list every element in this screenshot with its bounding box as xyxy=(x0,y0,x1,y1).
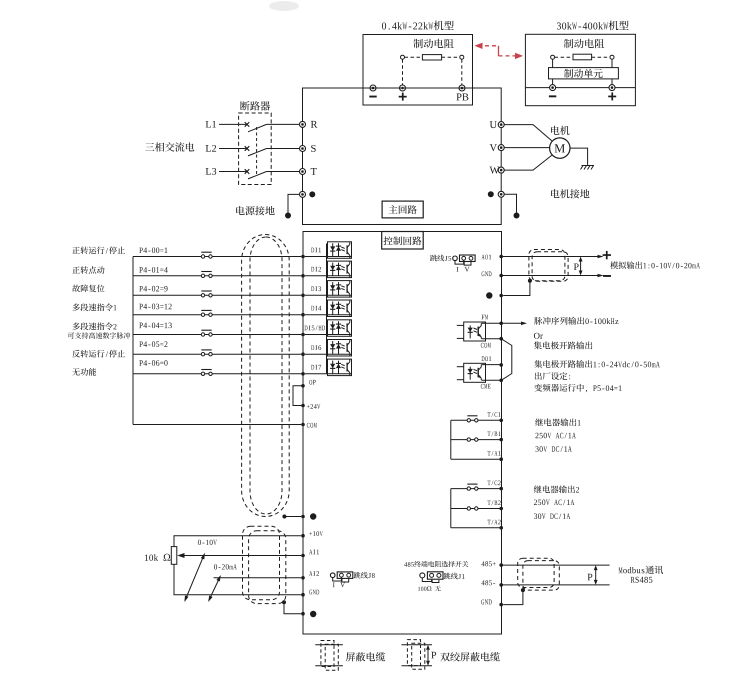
wire left node to brake unit xyxy=(552,59,554,67)
optocoupler FM xyxy=(457,322,486,341)
wire T/B1 xyxy=(451,439,501,441)
label L3 xyxy=(206,168,217,175)
wire input DI3 xyxy=(133,294,351,296)
wire AO1 output xyxy=(501,255,603,259)
terminal DI4 xyxy=(301,313,305,317)
terminal T xyxy=(300,169,306,175)
relay contact T/C1 xyxy=(467,416,478,422)
ground dot (power ground end) xyxy=(285,213,291,219)
label 反转运行/停止 xyxy=(72,350,125,358)
label - (AO1) xyxy=(603,275,611,277)
title 30kW-400kW机型 xyxy=(557,21,629,31)
wire T/C1 xyxy=(451,419,501,421)
optocoupler DI7 xyxy=(328,359,352,376)
label OP xyxy=(309,380,315,385)
label P4-03=12 xyxy=(139,304,171,310)
terminal DI3 xyxy=(301,294,305,298)
label - (right box) xyxy=(549,95,556,97)
relay contact T/B1 xyxy=(467,438,478,441)
shielded cable (analog) inner xyxy=(249,531,286,604)
ground dot (shield 1) xyxy=(310,513,316,519)
ground dot (inside main box right) xyxy=(488,191,494,197)
label V xyxy=(490,144,497,151)
wire input DI6 xyxy=(133,353,351,355)
terminal - (right box) xyxy=(550,85,556,91)
motor M xyxy=(550,138,570,158)
label T/A1 xyxy=(487,451,500,456)
ground dot (motor ground end) xyxy=(514,213,520,219)
label T/C2 xyxy=(487,481,500,486)
wire T/B2 xyxy=(451,508,501,510)
legend shielded cable symbol xyxy=(315,641,343,671)
relay link bar 2 xyxy=(450,489,452,528)
label P4-00=1 xyxy=(139,247,167,253)
label I (J8) xyxy=(333,583,335,588)
wire breaker to S terminal xyxy=(267,148,300,150)
input common bus wire xyxy=(132,257,134,425)
terminal T/B1 xyxy=(499,438,503,442)
label +24V xyxy=(307,404,320,409)
label DI1 xyxy=(311,248,321,253)
label COM xyxy=(307,423,317,428)
shielded cable (485) outer xyxy=(518,558,554,587)
label P4-01=4 xyxy=(139,267,167,273)
label T/C1 xyxy=(487,412,500,417)
breaker contact L2 xyxy=(245,146,250,151)
wire input DI1 xyxy=(133,256,351,258)
wire U to motor xyxy=(504,125,552,142)
wire DO1 out xyxy=(482,364,502,366)
label 断路器 xyxy=(240,101,270,110)
terminal CME xyxy=(499,379,503,383)
label W xyxy=(490,167,500,174)
wire pot top to +10V xyxy=(174,536,301,547)
wire input DI7 xyxy=(133,373,351,375)
title 0.4kW-22kW机型 xyxy=(382,21,454,31)
label AI2 xyxy=(309,571,319,576)
optocoupler DI5/HDI xyxy=(328,320,352,337)
label 正转运行/停止 xyxy=(72,246,125,254)
label 30V DC/1A (relay2) xyxy=(534,513,570,519)
terminal OP xyxy=(301,384,305,388)
shielded cable (485) inner xyxy=(523,561,559,591)
braking resistor (right box) xyxy=(573,54,592,60)
label 故障复位 xyxy=(72,285,104,293)
optocoupler DI2 xyxy=(328,261,352,278)
shielded cable capsule (digital inputs) outer xyxy=(242,235,290,517)
wire common bus to COM xyxy=(133,424,301,426)
wire motor ground terminal xyxy=(504,194,516,213)
optocoupler DI6 xyxy=(328,340,352,357)
terminal U xyxy=(498,122,504,128)
wire T/A1 xyxy=(451,458,501,460)
terminal DO1 xyxy=(499,363,503,367)
terminal PB (main top) xyxy=(459,85,465,91)
dashed wire node to resistor xyxy=(555,56,573,58)
label U xyxy=(490,121,497,128)
terminal GND (analog) xyxy=(301,593,305,597)
terminal DI1 xyxy=(301,255,305,259)
terminal AO1 xyxy=(499,255,503,259)
label PB xyxy=(456,94,468,101)
label T/B1 xyxy=(487,431,500,436)
label 电源接地 xyxy=(236,206,274,215)
label DI4 xyxy=(311,306,321,311)
label DI5/HDI xyxy=(305,326,328,331)
node (right brake circuit right) xyxy=(610,55,614,59)
terminal motor ground xyxy=(498,191,504,197)
label box 控制回路 xyxy=(382,232,424,250)
switch DI7 xyxy=(201,370,212,376)
label GND (AO1) xyxy=(482,271,492,276)
legend P marker xyxy=(426,645,436,666)
label T/B2 xyxy=(487,500,500,505)
label 继电器输出2 xyxy=(534,485,579,493)
label 100Ω 无 xyxy=(418,586,441,592)
label V (J5) xyxy=(465,267,470,272)
label +10V xyxy=(309,531,322,536)
brake-resistor option box (0.4kW-22kW) xyxy=(363,35,473,106)
switch DI1 xyxy=(201,252,212,258)
wire breaker to T terminal xyxy=(267,171,300,173)
terminal 485- xyxy=(499,583,503,587)
wire CME out xyxy=(482,379,502,381)
terminal AI1 xyxy=(301,554,305,558)
terminal - (main top) xyxy=(370,85,376,91)
terminal DI7 xyxy=(301,372,305,376)
switch DI4 xyxy=(201,310,212,316)
label R xyxy=(311,121,318,128)
control circuit box 控制回路 xyxy=(303,232,502,635)
junction dot shield 485 xyxy=(521,588,525,592)
wire COM out xyxy=(482,338,502,340)
signal arrow AI1 xyxy=(184,553,205,602)
terminal DI2 xyxy=(301,274,305,278)
label 出厂设定: xyxy=(535,372,570,380)
wire FM out xyxy=(482,322,502,324)
label - (minus) xyxy=(369,96,376,98)
label + xyxy=(399,93,407,101)
jumper J5 xyxy=(453,255,475,265)
wire shield AO1 to terminal xyxy=(503,281,530,296)
breaker contact L1 xyxy=(245,122,250,127)
brake-unit option box (30kW-400kW) xyxy=(525,34,635,105)
potentiometer 10k xyxy=(171,547,177,565)
wire breaker to R terminal xyxy=(267,123,300,125)
ground dot (shield 2) xyxy=(310,611,316,617)
terminal 485+ xyxy=(499,563,503,567)
terminal S xyxy=(300,146,306,152)
label L2 xyxy=(206,145,216,152)
main circuit box 主回路 xyxy=(303,88,502,225)
dashed wire node to + terminal xyxy=(402,59,404,85)
label 屏蔽电缆 xyxy=(346,652,385,661)
relay link bar 1 xyxy=(450,420,452,459)
terminal T/A2 xyxy=(499,526,503,530)
terminal FM xyxy=(499,322,503,326)
wire V to motor xyxy=(504,147,549,149)
terminal COM (FM) xyxy=(499,337,503,341)
shielded cable (AO1) outer xyxy=(529,250,565,281)
node (left brake circuit left) xyxy=(401,55,405,59)
braking resistor (left box) xyxy=(422,55,441,60)
terminal T/A1 xyxy=(499,457,503,461)
wire L2 to breaker xyxy=(219,148,247,150)
red dashed arrow between brake options xyxy=(475,43,524,60)
optocoupler DO1 xyxy=(457,363,486,382)
wire input DI4 xyxy=(133,314,351,316)
wire brake unit to - terminal xyxy=(552,79,554,85)
breaker blade L2 xyxy=(248,149,267,156)
wire AI2 xyxy=(214,577,302,579)
optocoupler DI3 xyxy=(328,281,352,298)
dashed wire resistor to node xyxy=(592,56,610,58)
label T/A2 xyxy=(487,520,500,525)
label 无功能 xyxy=(72,368,96,376)
label DO1 xyxy=(482,356,492,361)
label 制动电阻 (left box) xyxy=(413,39,453,48)
label 30V DC/1A (relay1) xyxy=(535,446,571,452)
breaker linkage dashed line xyxy=(256,127,258,175)
junction dot shield 1 xyxy=(282,515,286,519)
label P4-05=2 xyxy=(139,341,167,347)
label Or xyxy=(534,333,543,339)
label 三相交流电 xyxy=(145,142,194,151)
label 继电器输出1 xyxy=(535,418,580,426)
label DI3 xyxy=(311,286,321,291)
label I (J5) xyxy=(457,267,459,272)
terminal DI6 xyxy=(301,352,305,356)
optocoupler DI1 xyxy=(328,242,352,258)
terminal shield gnd AO1 xyxy=(499,294,503,298)
wire 485+ xyxy=(501,564,609,566)
label L1 xyxy=(206,121,216,128)
label 制动电阻 (right box) xyxy=(564,39,604,48)
node (left brake circuit right) xyxy=(460,55,464,59)
shielded cable capsule (digital inputs) inner xyxy=(250,237,282,514)
wire shield 1 to terminal xyxy=(284,516,301,518)
terminal GND (485) xyxy=(499,603,503,607)
terminal DI5/HDI xyxy=(301,333,305,337)
label 485+ xyxy=(481,561,495,566)
jumper wire OP to +24V xyxy=(293,386,303,406)
label + (AO1) xyxy=(603,251,611,259)
label COM (FM) xyxy=(481,343,491,348)
junction dot shield 2 xyxy=(282,600,286,604)
P width marker (485) xyxy=(587,565,597,585)
label 跳线J5 xyxy=(430,255,451,262)
breaker blade L1 xyxy=(248,124,267,131)
dashed wire node to resistor (left) xyxy=(405,56,423,58)
ground dot (shield AO1) xyxy=(486,292,492,298)
label GND (485) xyxy=(481,600,491,605)
earth symbol (motor ground) xyxy=(581,166,595,170)
label 0-10V xyxy=(198,540,217,545)
switch DI5/HDI xyxy=(201,330,212,336)
shielded cable (analog) outer xyxy=(243,526,280,600)
label 485终端电阻选择开关 xyxy=(404,561,468,567)
label CME xyxy=(481,384,491,389)
label 正转点动 xyxy=(72,266,104,274)
label 0-20mA xyxy=(214,564,237,569)
label 250V AC/1A (relay2) xyxy=(534,500,574,506)
terminal + (right box) xyxy=(609,85,615,91)
ground dot (inside main box left) xyxy=(309,191,315,197)
wire W to motor xyxy=(504,155,552,170)
dashed wire resistor to node (right) xyxy=(442,56,460,58)
switch DI6 xyxy=(201,350,212,356)
terminal shield gnd 1 xyxy=(301,515,305,519)
wire GND output xyxy=(501,274,603,278)
label DI2 xyxy=(311,267,321,272)
wire T/C2 xyxy=(451,488,501,490)
shielded cable (AO1) inner xyxy=(532,252,568,282)
relay contact T/B2 xyxy=(467,507,478,510)
circuit breaker dashed box xyxy=(239,113,272,185)
label 485- xyxy=(481,580,495,585)
FM output arrow xyxy=(501,322,527,326)
label AO1 xyxy=(481,255,491,260)
label P4-02=9 xyxy=(139,286,167,292)
dashed wire node to PB terminal xyxy=(461,59,463,85)
wire power ground xyxy=(288,194,300,213)
terminal shield gnd 2 xyxy=(301,612,305,616)
jumper J1 xyxy=(420,572,443,583)
terminal GND (AO1) xyxy=(499,274,503,278)
wire pot bottom to GND xyxy=(174,564,301,594)
label RS485 xyxy=(631,577,653,583)
terminal T/C1 xyxy=(499,419,503,423)
relay contact T/C2 xyxy=(467,484,478,490)
terminal R xyxy=(300,121,306,127)
label 模拟输出1:0-10V/0-20mA xyxy=(610,261,700,269)
wire input DI2 xyxy=(133,275,351,277)
wire T/A2 xyxy=(451,527,501,529)
signal arrow AI2 xyxy=(208,575,221,602)
wire L3 to breaker xyxy=(219,171,247,173)
wire input DI5/HDI xyxy=(133,334,351,336)
label 可支持高速数字脉冲 xyxy=(68,332,130,339)
label 双绞屏蔽电缆 xyxy=(440,652,499,661)
terminal AI2 xyxy=(301,576,305,580)
label S xyxy=(311,145,315,152)
label 集电极开路输出1:0-24Vdc/0-50mA xyxy=(534,360,660,368)
label DI7 xyxy=(311,365,321,370)
label V (J8) xyxy=(340,582,345,587)
bus bar line (right box) xyxy=(525,87,635,89)
label 变频器运行中, P5-04=1 xyxy=(534,384,621,392)
label P4-06=0 xyxy=(139,360,167,366)
label DI6 xyxy=(311,345,321,350)
label 跳线J1 xyxy=(444,573,465,580)
switch DI3 xyxy=(201,291,212,297)
optocoupler bus wire xyxy=(326,244,328,374)
label Modbus通讯 xyxy=(619,566,664,574)
label 250V AC/1A (relay1) xyxy=(535,433,575,439)
terminal V xyxy=(498,145,504,151)
switch DI2 xyxy=(201,272,212,278)
terminal T/C2 xyxy=(499,487,503,491)
label + (right box) xyxy=(608,92,616,100)
label T xyxy=(311,168,317,175)
P width marker (AO1) xyxy=(574,257,583,276)
label FM xyxy=(482,315,489,320)
label 10k Ω xyxy=(145,554,171,561)
jumper J8 xyxy=(330,572,352,582)
wire 485- xyxy=(501,584,609,586)
wire brake unit to + terminal xyxy=(611,79,613,85)
label 多段速指令2 xyxy=(72,322,116,330)
brake unit box 制动单元 xyxy=(549,68,619,79)
label 跳线J8 xyxy=(354,572,375,579)
terminal power ground xyxy=(300,191,306,197)
terminal +10V xyxy=(301,534,305,538)
label AI1 xyxy=(309,550,319,555)
pot wiper arrow xyxy=(177,553,301,558)
label 集电极开路输出 xyxy=(534,341,593,349)
optocoupler DI4 xyxy=(328,300,352,317)
breaker contact L3 xyxy=(245,169,250,174)
wire L1 to breaker xyxy=(219,123,247,125)
label box 主回路 xyxy=(382,201,423,218)
terminal + (main top) xyxy=(400,85,406,91)
link COM to CME xyxy=(501,339,512,381)
label 电机接地 xyxy=(551,189,589,198)
wire motor to earth xyxy=(570,148,588,165)
node (right brake circuit left) xyxy=(551,55,555,59)
legend twisted pair symbol xyxy=(402,640,433,670)
wire right node to brake unit xyxy=(611,59,613,67)
terminal +24V xyxy=(301,404,305,408)
terminal W xyxy=(498,167,504,173)
junction dot shield AO1 xyxy=(528,279,532,283)
faint artifact (top-left) xyxy=(269,1,299,11)
terminal COM xyxy=(301,423,305,427)
breaker blade L3 xyxy=(248,172,267,179)
label 多段速指令1 xyxy=(72,303,116,311)
wire shield 2 to terminal xyxy=(284,602,301,613)
terminal T/B2 xyxy=(499,507,503,511)
label 电机 xyxy=(551,126,570,135)
label GND (analog) xyxy=(309,590,319,595)
wire shield 485 to GND xyxy=(503,590,523,605)
label 脉冲序列输出0-100kHz xyxy=(534,317,618,325)
label P4-04=13 xyxy=(139,323,171,329)
